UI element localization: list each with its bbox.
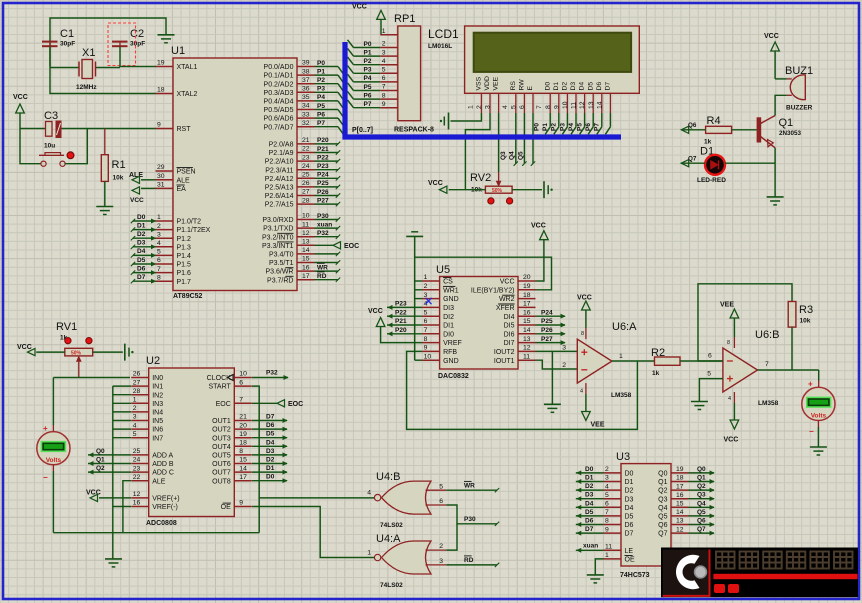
wire P3.2 stub — [315, 236, 339, 238]
svg-text:8: 8 — [157, 274, 161, 281]
U5 pin 5 DI2 — [422, 315, 440, 317]
svg-text:WR: WR — [317, 264, 328, 271]
wire D6 to U1 — [133, 272, 156, 274]
svg-text:U4:A: U4:A — [376, 533, 401, 545]
wire C1 to XTAL2 — [50, 46, 156, 93]
wire OE to ground — [595, 559, 603, 575]
svg-text:VCC: VCC — [352, 4, 367, 11]
svg-text:15: 15 — [302, 256, 310, 263]
svg-text:25: 25 — [302, 172, 310, 179]
svg-text:12: 12 — [133, 491, 141, 498]
svg-text:2: 2 — [424, 283, 428, 290]
U5 pin 13 DI7 — [518, 342, 536, 344]
wire LCD VEE to RV2 wiper — [498, 113, 500, 172]
svg-text:D0: D0 — [266, 474, 275, 481]
LCD1 LM016L display — [465, 26, 640, 93]
svg-text:OUT7: OUT7 — [212, 470, 231, 477]
svg-text:OUT8: OUT8 — [212, 478, 231, 485]
svg-text:D5: D5 — [137, 257, 146, 264]
svg-text:2: 2 — [133, 405, 137, 412]
U1 pin ALE — [156, 179, 174, 181]
svg-text:P1: P1 — [542, 123, 549, 131]
svg-text:D3: D3 — [585, 492, 594, 499]
svg-text:12: 12 — [676, 526, 684, 533]
U2 pin 12 VREF+ — [131, 497, 149, 499]
svg-text:2: 2 — [562, 362, 566, 369]
svg-text:Q1: Q1 — [96, 457, 105, 464]
svg-text:RD: RD — [464, 557, 474, 564]
svg-text:RST: RST — [177, 126, 192, 133]
LCD pin 1 VSS — [480, 93, 482, 113]
svg-text:20: 20 — [239, 422, 247, 429]
U2 pin 16 VREF- — [131, 506, 149, 508]
wire Q7 from U3 — [689, 532, 715, 534]
wire R2 to U6B — [680, 360, 723, 362]
U2 pin 8 OUT5 — [234, 454, 252, 456]
svg-text:P[0..7]: P[0..7] — [352, 127, 373, 134]
terminal EOC U2 — [252, 402, 277, 404]
svg-text:15: 15 — [239, 457, 247, 464]
svg-text:5: 5 — [133, 431, 137, 438]
svg-text:6: 6 — [439, 498, 443, 505]
svg-text:P0: P0 — [317, 60, 325, 67]
svg-text:2: 2 — [476, 105, 483, 109]
svg-text:50%: 50% — [71, 351, 82, 357]
svg-text:VCC: VCC — [428, 180, 443, 187]
svg-text:20: 20 — [523, 274, 531, 281]
svg-text:36: 36 — [302, 86, 310, 93]
svg-text:P24: P24 — [541, 309, 553, 316]
wire R3 to output — [791, 327, 793, 370]
U3 pin 14 Q5 — [671, 515, 689, 517]
svg-text:P2.5/A13: P2.5/A13 — [265, 185, 294, 192]
svg-text:P3.1/TXD: P3.1/TXD — [263, 226, 293, 233]
U2 pin 4 IN6 — [131, 428, 149, 430]
svg-text:P2: P2 — [551, 123, 558, 131]
svg-text:P1.1/T2EX: P1.1/T2EX — [177, 227, 211, 234]
svg-text:VCC: VCC — [724, 437, 739, 444]
svg-text:+: + — [43, 424, 48, 433]
LCD pin 5 RW — [523, 93, 525, 113]
svg-text:28: 28 — [302, 197, 310, 204]
U1 pin P2.2/A10 — [297, 160, 315, 162]
U3 pin 12 Q7 — [671, 532, 689, 534]
wire bus to RP1 p3 — [348, 66, 354, 74]
svg-text:9: 9 — [605, 526, 609, 533]
svg-text:21: 21 — [239, 414, 247, 421]
svg-text:23: 23 — [133, 465, 141, 472]
svg-text:35: 35 — [302, 94, 310, 101]
svg-text:1: 1 — [467, 105, 474, 109]
RP1 pin 1 — [380, 34, 398, 36]
wire Q4 from U3 — [689, 506, 715, 508]
svg-text:P2.1/A9: P2.1/A9 — [269, 150, 294, 157]
svg-text:10: 10 — [239, 371, 247, 378]
svg-text:6: 6 — [708, 353, 712, 360]
svg-text:10: 10 — [424, 353, 432, 360]
svg-text:P4: P4 — [317, 94, 325, 101]
logo red marks — [714, 584, 725, 593]
svg-text:P1.7: P1.7 — [177, 279, 192, 286]
svg-text:30: 30 — [157, 173, 165, 180]
svg-text:RP1: RP1 — [394, 13, 415, 25]
svg-text:22: 22 — [133, 474, 141, 481]
svg-text:P0: P0 — [364, 41, 372, 48]
svg-text:14: 14 — [676, 509, 684, 516]
resistor R1 — [104, 129, 106, 155]
svg-text:DI5: DI5 — [504, 323, 515, 330]
ground voltmeter right — [810, 446, 827, 448]
svg-text:6: 6 — [605, 501, 609, 508]
button red marker — [67, 152, 74, 159]
U3 pin 19 Q0 — [671, 472, 689, 474]
U5 pin 17 XFER — [518, 306, 536, 308]
ground top — [158, 34, 175, 36]
svg-text:U3: U3 — [616, 451, 630, 463]
svg-text:U5: U5 — [436, 264, 450, 276]
svg-text:50%: 50% — [492, 188, 503, 194]
U3 pin 1 OE — [604, 558, 622, 560]
wire feedback R3 — [698, 284, 792, 361]
wire bus to RP1 p6 — [348, 91, 354, 99]
svg-text:P25: P25 — [541, 318, 553, 325]
svg-text:8: 8 — [545, 105, 552, 109]
svg-text:22: 22 — [302, 146, 310, 153]
svg-text:17: 17 — [302, 273, 310, 280]
svg-text:RESPACK-8: RESPACK-8 — [394, 127, 434, 134]
svg-text:RFB: RFB — [443, 349, 457, 356]
svg-text:P32: P32 — [317, 230, 329, 237]
op-amp U6:A LM358 — [577, 339, 612, 383]
U3 pin 8 D6 — [604, 524, 622, 526]
U1 pin P3.1/TXD — [297, 227, 315, 229]
wire P25 stub — [315, 186, 339, 188]
svg-text:2: 2 — [382, 41, 386, 48]
svg-text:7: 7 — [605, 509, 609, 516]
svg-text:U6:A: U6:A — [612, 321, 637, 333]
svg-text:7: 7 — [157, 266, 161, 273]
svg-text:16: 16 — [302, 264, 310, 271]
svg-text:ALE: ALE — [177, 177, 191, 184]
svg-text:74LS02: 74LS02 — [380, 522, 403, 529]
svg-text:37: 37 — [302, 77, 310, 84]
svg-text:1: 1 — [157, 214, 161, 221]
LCD screen — [474, 33, 631, 72]
U1 pin EA — [156, 187, 174, 189]
wire ILE net — [415, 257, 552, 290]
svg-text:VCC: VCC — [764, 33, 779, 40]
wire WR to U4B — [446, 489, 497, 491]
svg-text:IN3: IN3 — [152, 401, 163, 408]
terminal VSS — [448, 113, 450, 130]
svg-text:9: 9 — [157, 122, 161, 129]
svg-text:XFER: XFER — [496, 305, 515, 312]
svg-text:R4: R4 — [707, 115, 721, 127]
svg-text:START: START — [208, 384, 231, 391]
svg-text:21: 21 — [302, 137, 310, 144]
svg-text:LE: LE — [625, 548, 634, 555]
svg-text:26: 26 — [302, 180, 310, 187]
svg-text:R1: R1 — [112, 159, 126, 171]
svg-text:IN6: IN6 — [152, 427, 163, 434]
U6A power pin 8 VCC — [585, 328, 587, 339]
svg-text:34: 34 — [302, 103, 310, 110]
U2 pin 26 IN0 — [131, 377, 149, 379]
svg-text:15: 15 — [523, 318, 531, 325]
svg-text:18: 18 — [523, 292, 531, 299]
svg-text:OUT5: OUT5 — [212, 453, 231, 460]
wire P3.1 stub — [315, 227, 339, 229]
svg-text:xuan: xuan — [583, 543, 598, 550]
voltmeter right — [818, 370, 820, 381]
wire P0.1 to bus — [315, 74, 339, 76]
wire buzzer pins — [775, 78, 787, 80]
wire LCD E Q5 — [532, 113, 534, 164]
svg-text:VEE: VEE — [720, 302, 734, 309]
svg-text:Q7: Q7 — [697, 526, 706, 533]
svg-text:D5: D5 — [266, 431, 275, 438]
svg-text:Q3: Q3 — [697, 492, 706, 499]
wires P23-P20 to U5 — [387, 306, 422, 308]
svg-text:16: 16 — [676, 492, 684, 499]
U3 pin 18 Q1 — [671, 481, 689, 483]
U5 pin 1 CS — [422, 280, 440, 282]
wire bus to RP1 p2 — [348, 57, 354, 65]
svg-text:Q3: Q3 — [658, 496, 667, 503]
svg-text:P2.6/A14: P2.6/A14 — [265, 193, 294, 200]
wire RFB feedback — [407, 351, 638, 429]
svg-text:2: 2 — [605, 466, 609, 473]
svg-text:EOC: EOC — [288, 401, 303, 408]
svg-text:P20: P20 — [395, 327, 407, 334]
svg-text:D7: D7 — [137, 274, 146, 281]
svg-text:3: 3 — [605, 475, 609, 482]
EEWorld logo banner — [661, 548, 858, 598]
U1 pin P2.7/A15 — [297, 203, 315, 205]
svg-text:DI7: DI7 — [504, 340, 515, 347]
svg-text:P2.2/A10: P2.2/A10 — [265, 159, 294, 166]
svg-text:P2.0/A8: P2.0/A8 — [269, 142, 294, 149]
wire D5 to U3 — [576, 515, 604, 517]
power VCC RV2 — [439, 186, 447, 193]
svg-text:WR1: WR1 — [443, 287, 459, 294]
U2 pin 2 IN4 — [131, 411, 149, 413]
svg-text:+: + — [808, 380, 813, 389]
U5 pin 8 VREF — [422, 342, 440, 344]
U3 pin 5 D3 — [604, 498, 622, 500]
svg-text:Q6: Q6 — [658, 522, 667, 529]
svg-text:VCC: VCC — [86, 490, 101, 497]
U5 pin 4 DI3 — [422, 306, 440, 308]
svg-text:7: 7 — [536, 105, 543, 109]
svg-text:IN7: IN7 — [152, 435, 163, 442]
svg-text:4: 4 — [502, 105, 509, 109]
NOR gate U4:A 74LS02 — [382, 541, 432, 574]
U1 pin P0.4/AD4 — [297, 100, 315, 102]
svg-text:DAC0832: DAC0832 — [438, 373, 469, 380]
svg-text:P26: P26 — [541, 327, 553, 334]
svg-text:3: 3 — [157, 231, 161, 238]
U2 pin 28 IN2 — [131, 394, 149, 396]
U5 pin 16 DI4 — [518, 315, 536, 317]
svg-text:VCC: VCC — [13, 94, 28, 101]
wire Q6 from U3 — [689, 524, 715, 526]
wire P0.2 to bus — [315, 83, 339, 85]
wire P0.7 to bus — [315, 126, 339, 128]
svg-text:18: 18 — [239, 440, 247, 447]
wire VCC to RP1 pin1 — [380, 19, 383, 34]
svg-text:Q6: Q6 — [688, 122, 697, 129]
svg-text:D3: D3 — [570, 82, 577, 91]
svg-text:D7: D7 — [585, 526, 594, 533]
svg-text:C1: C1 — [60, 28, 74, 40]
svg-text:6: 6 — [157, 257, 161, 264]
LCD pin 2 VDD — [489, 93, 491, 113]
wire D1 to U1 — [133, 229, 156, 231]
U2 pin 6 START — [234, 385, 252, 387]
wire D2 to U3 — [576, 489, 604, 491]
wire IOUT1 to opamp — [536, 360, 578, 369]
U2 pin 15 OUT6 — [234, 463, 252, 465]
wire LCD D5 to bus — [592, 113, 594, 127]
wire CLOCK P32 — [252, 377, 288, 379]
svg-text:P4: P4 — [568, 123, 575, 131]
svg-text:Q5: Q5 — [697, 509, 706, 516]
svg-text:CLOCK: CLOCK — [207, 375, 231, 382]
RP1 pin 5 P3 — [380, 72, 398, 74]
U2 pin 21 OUT1 — [234, 420, 252, 422]
svg-text:P21: P21 — [395, 318, 407, 325]
svg-text:RW: RW — [519, 79, 526, 91]
svg-text:WR2: WR2 — [499, 296, 515, 303]
svg-text:D4: D4 — [137, 248, 146, 255]
svg-text:P0.1/AD1: P0.1/AD1 — [264, 73, 294, 80]
svg-text:23: 23 — [302, 154, 310, 161]
LCD pin 6 E — [532, 93, 534, 113]
svg-text:P3.3/INT1: P3.3/INT1 — [262, 243, 294, 250]
wire P22 stub — [315, 160, 339, 162]
ground U3 — [587, 574, 604, 576]
U1 pin P1.6 — [156, 272, 174, 274]
svg-text:VREF(+): VREF(+) — [152, 496, 179, 503]
svg-text:30pF: 30pF — [60, 41, 75, 48]
svg-text:1: 1 — [424, 274, 428, 281]
LCD pin 12 D5 — [592, 93, 594, 113]
bus P[0..7] — [345, 42, 621, 137]
wire D7 to U3 — [576, 532, 604, 534]
node marker blue — [426, 298, 432, 304]
wire EOC from U1 — [315, 244, 334, 246]
logo red underline — [713, 574, 857, 579]
svg-text:5: 5 — [382, 67, 386, 74]
svg-text:31: 31 — [157, 182, 165, 189]
svg-text:P0.4/AD4: P0.4/AD4 — [264, 99, 294, 106]
svg-text:18: 18 — [676, 475, 684, 482]
wire P24 stub — [315, 177, 339, 179]
svg-text:GND: GND — [443, 296, 459, 303]
svg-text:8: 8 — [424, 336, 428, 343]
svg-text:10u: 10u — [44, 143, 55, 150]
svg-text:P3: P3 — [364, 67, 372, 74]
svg-text:P1.3: P1.3 — [177, 244, 192, 251]
svg-text:12: 12 — [579, 101, 586, 109]
U1 pin RST — [156, 128, 174, 130]
wire P20 stub — [315, 143, 339, 145]
U2 pin 7 EOC — [234, 402, 252, 404]
svg-text:P3.2/INT0: P3.2/INT0 — [262, 234, 294, 241]
svg-text:P3.5/T1: P3.5/T1 — [269, 260, 294, 267]
svg-text:IOUT1: IOUT1 — [494, 358, 515, 365]
svg-text:12: 12 — [523, 345, 531, 352]
svg-text:27: 27 — [133, 379, 141, 386]
svg-text:4: 4 — [157, 240, 161, 247]
svg-text:P0.3/AD3: P0.3/AD3 — [264, 90, 294, 97]
svg-text:28: 28 — [133, 388, 141, 395]
svg-text:Q4: Q4 — [509, 151, 516, 160]
wire bus to RP1 p7 — [348, 100, 354, 108]
wire D5 to U1 — [133, 263, 156, 265]
svg-text:WR: WR — [464, 483, 475, 490]
U1 pin P1.4 — [156, 254, 174, 256]
svg-text:13: 13 — [588, 101, 595, 109]
wire bus to RP1 p5 — [348, 83, 354, 91]
wire LCD D7 to bus — [609, 113, 611, 127]
svg-text:11: 11 — [302, 221, 309, 228]
terminal RV2 — [543, 181, 545, 198]
U1 pin XTAL2 — [156, 93, 174, 95]
wire LCD D1 to bus — [558, 113, 560, 127]
svg-text:ILE(BY1/BY2): ILE(BY1/BY2) — [471, 287, 515, 294]
wire LCD D4 to bus — [584, 113, 586, 127]
wire D3 to U3 — [576, 498, 604, 500]
wire P0.6 to bus — [315, 117, 339, 119]
svg-text:P25: P25 — [317, 180, 329, 187]
svg-text:P4: P4 — [364, 75, 372, 82]
capacitor C3 electrolytic — [46, 122, 53, 137]
LCD pin 3 VEE — [498, 93, 500, 113]
svg-text:OUT1: OUT1 — [212, 418, 231, 425]
svg-text:R3: R3 — [799, 304, 813, 316]
latch U3 74HC573 — [621, 464, 671, 566]
svg-text:ADD A: ADD A — [152, 453, 173, 460]
svg-text:17: 17 — [523, 301, 531, 308]
svg-text:XTAL1: XTAL1 — [177, 64, 198, 71]
svg-text:DI6: DI6 — [504, 331, 515, 338]
svg-text:7: 7 — [382, 84, 386, 91]
svg-text:7: 7 — [424, 327, 428, 334]
svg-text:24: 24 — [302, 163, 310, 170]
svg-text:IN2: IN2 — [152, 392, 163, 399]
svg-text:8: 8 — [727, 340, 730, 346]
svg-text:1: 1 — [605, 552, 609, 559]
wire P0.3 to bus — [315, 91, 339, 93]
svg-text:13: 13 — [676, 518, 684, 525]
capacitor C1 — [49, 41, 51, 47]
svg-text:P22: P22 — [317, 154, 329, 161]
U1 pin P0.1/AD1 — [297, 74, 315, 76]
svg-text:P2: P2 — [317, 77, 325, 84]
U1 pin P2.3/A11 — [297, 169, 315, 171]
svg-text:18: 18 — [157, 87, 165, 94]
svg-text:P1.6: P1.6 — [177, 270, 192, 277]
svg-text:10k: 10k — [800, 318, 811, 325]
svg-text:1: 1 — [619, 353, 623, 360]
svg-text:VDD: VDD — [484, 76, 491, 90]
wire RV1 right terminal — [93, 351, 123, 353]
svg-text:LED-RED: LED-RED — [697, 177, 726, 184]
svg-text:P30: P30 — [464, 516, 476, 523]
svg-text:D2: D2 — [625, 488, 634, 495]
